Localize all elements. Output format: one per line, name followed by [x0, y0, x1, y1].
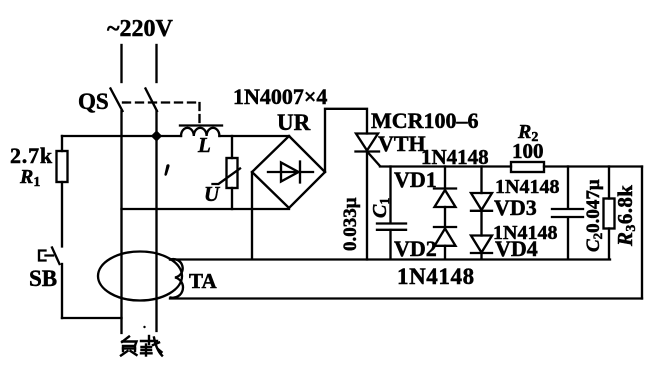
svg-text:VD3: VD3 [494, 195, 537, 220]
capacitor C2 lead bottom [567, 218, 569, 260]
transformer TA secondary winding [171, 259, 184, 298]
wire bus top right of inductor [219, 135, 289, 137]
svg-text:VTH: VTH [378, 131, 426, 156]
wire mains right to junction [155, 111, 157, 136]
diode VD4 [471, 236, 492, 253]
capacitor C1 lead bottom [389, 230, 391, 259]
svg-text:C1: C1 [369, 198, 393, 218]
wire mains left upper [120, 45, 122, 82]
svg-text:UR: UR [277, 110, 311, 135]
wire bridge plus up and right [325, 109, 367, 172]
resistor R3 lead top [608, 167, 610, 199]
resistor R2 body [511, 162, 544, 172]
diode VD3 [480, 167, 482, 194]
svg-text:MCR100–6: MCR100–6 [371, 108, 479, 133]
switch SB actuator [39, 251, 53, 261]
wire bus2 (lower AC) [122, 208, 290, 210]
svg-text:SB: SB [29, 266, 57, 291]
svg-text:VD2: VD2 [394, 236, 437, 261]
varistor U body [227, 158, 238, 188]
wire TA secondary bottom [170, 297, 642, 299]
svg-text:100: 100 [512, 139, 544, 163]
wire R1 to SB [61, 182, 63, 247]
svg-text:VD1: VD1 [394, 167, 437, 192]
svg-text:VD4: VD4 [495, 236, 538, 261]
wire VD3-VD4 [480, 211, 482, 236]
speck [143, 326, 145, 328]
svg-text:QS: QS [78, 89, 109, 114]
wire bottom control bus [170, 258, 610, 260]
svg-text:R36.8k: R36.8k [613, 185, 639, 247]
load label 负载 [121, 336, 162, 356]
wire bus after R2 [544, 165, 642, 167]
QS linkage dashed vertical [198, 103, 200, 124]
resistor R1 body [57, 151, 68, 182]
switch QS pole 2 blade [146, 89, 158, 112]
wire SB down [61, 264, 63, 318]
varistor U diagonal [213, 169, 241, 185]
capacitor C2 lead top [567, 167, 569, 208]
QS linkage dashed horizontal [123, 101, 199, 103]
diode VD1 [444, 167, 446, 189]
wire gate bus [380, 165, 511, 167]
wire mains left lower [120, 111, 122, 333]
svg-text:1N4148: 1N4148 [397, 264, 475, 289]
diode VD2 [434, 226, 456, 228]
wire VD1-VD2 [444, 207, 446, 227]
svg-text:U: U [204, 182, 221, 206]
svg-text:2.7k: 2.7k [10, 143, 53, 168]
svg-text:1N4007×4: 1N4007×4 [233, 84, 327, 109]
wire mains right upper [155, 45, 157, 82]
wire varistor to bus2 [231, 188, 233, 209]
svg-text:L: L [197, 133, 211, 157]
bridge rectifier UR diamond [252, 136, 325, 208]
capacitor C1 plates [377, 224, 406, 230]
artifact mark [164, 164, 169, 175]
varistor U lead top [231, 136, 233, 158]
resistor R3 body [604, 199, 615, 229]
wire VD4 down [480, 253, 482, 259]
inductor L coil [181, 128, 219, 136]
capacitor C1 lead top [389, 167, 391, 223]
wire VD2 down [444, 246, 446, 259]
resistor R1 lead top [61, 136, 63, 151]
thyristor VTH [356, 134, 378, 151]
bridge UR inner diode [268, 162, 313, 183]
transformer TA primary ellipse [98, 252, 182, 301]
capacitor C2 plates [552, 209, 583, 217]
switch QS pole 1 blade [111, 89, 123, 112]
svg-text:0.033μ: 0.033μ [340, 197, 361, 251]
wire SB return to mains [62, 317, 122, 319]
svg-text:TA: TA [189, 269, 217, 293]
thyristor VTH gate [368, 152, 380, 166]
svg-text:~220V: ~220V [107, 16, 173, 42]
svg-text:C20.047μ: C20.047μ [583, 179, 605, 252]
resistor R3 lead bottom [608, 229, 610, 260]
wire bridge minus down [251, 172, 253, 259]
wire mains right lower [155, 136, 157, 331]
switch SB blade [52, 248, 60, 265]
wire VTH cathode down [366, 152, 368, 260]
wire right edge down [641, 167, 643, 299]
wire bus top left [62, 135, 181, 137]
inductor L core bar [180, 124, 222, 126]
node junction dot [153, 132, 161, 140]
svg-text:R1: R1 [19, 166, 40, 190]
